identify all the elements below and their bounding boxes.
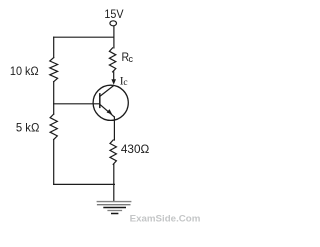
svg-text:10 kΩ: 10 kΩ — [10, 64, 39, 78]
svg-text:430Ω: 430Ω — [121, 142, 149, 156]
svg-text:5 kΩ: 5 kΩ — [16, 121, 40, 135]
svg-text:c: c — [123, 78, 127, 88]
svg-text:c: c — [129, 54, 134, 64]
svg-text:ExamSide.Com: ExamSide.Com — [130, 213, 201, 224]
svg-text:15V: 15V — [104, 7, 123, 21]
